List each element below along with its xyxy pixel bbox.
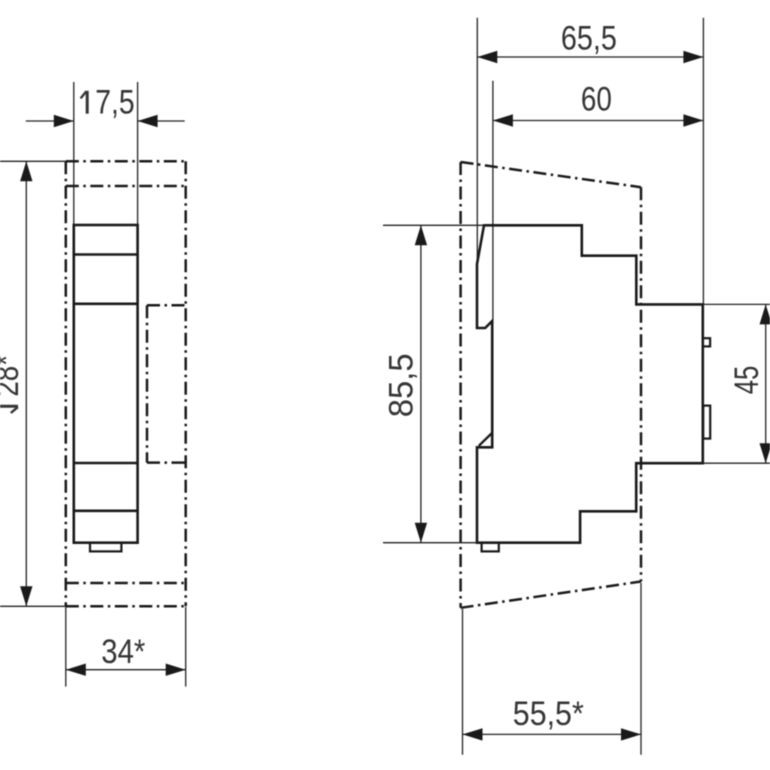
- arrowhead 55,5* left (points left): [463, 728, 483, 740]
- dimension line 17,5 right tail: [138, 120, 185, 122]
- extension line bottom of 85,5: [383, 542, 477, 544]
- arrowhead 60 right (points right): [683, 114, 703, 126]
- svg-text:28*: 28*: [0, 355, 26, 397]
- arrowhead 128* bottom (points down): [20, 586, 32, 606]
- dimension line 65,5: [477, 56, 703, 58]
- rail clip bump lower: [703, 406, 710, 439]
- phantom panel right vertical: [640, 187, 643, 581]
- digit 1 stem of 17,5: [86, 91, 89, 114]
- phantom outline left vertical: [65, 161, 68, 606]
- svg-text:60: 60: [581, 80, 612, 118]
- arrowhead 65,5 right (points right): [683, 51, 703, 63]
- extension line left of 65,5: [476, 18, 478, 264]
- extension line top of 45: [703, 303, 770, 305]
- extension line top of 85,5: [383, 224, 484, 226]
- digit 1 flag of 128* (rotated): [11, 407, 18, 413]
- svg-text:55,5*: 55,5*: [513, 695, 584, 733]
- arrowhead 17,5 right (points left): [138, 115, 158, 127]
- dimension line 60: [493, 120, 704, 122]
- bottom tab (front view): [90, 543, 121, 552]
- digit 1 stem of 128* (rotated): [0, 405, 18, 408]
- phantom panel bottom slant: [461, 582, 641, 608]
- extension line left of 34*: [65, 607, 67, 687]
- extension line bottom of 128*: [0, 605, 66, 607]
- svg-text:65,5: 65,5: [561, 19, 617, 57]
- arrowhead 85,5 top (points up): [415, 225, 427, 245]
- arrowhead 85,5 bottom (points down): [415, 523, 427, 543]
- divider line 4: [74, 509, 138, 512]
- dimension text 128* (rotated): [0, 355, 26, 413]
- svg-text:45: 45: [728, 366, 766, 395]
- extension line right of 65,5 / 60: [702, 18, 704, 305]
- digit 1 flag of 17,5: [81, 91, 87, 98]
- arrowhead 55,5* right (points right): [621, 728, 641, 740]
- dimension text 17,5: [81, 84, 135, 122]
- phantom panel top slant: [461, 162, 641, 187]
- phantom panel left vertical: [459, 162, 462, 608]
- rail hook bump upper: [703, 338, 710, 346]
- phantom outline right vertical: [184, 161, 187, 606]
- arrowhead 65,5 left (points left): [477, 51, 497, 63]
- arrowhead 17,5 left (points right): [54, 115, 74, 127]
- arrowhead 45 bottom (points down): [760, 443, 770, 463]
- phantom notch bottom: [147, 461, 186, 464]
- arrowhead 128* top (points up): [20, 161, 32, 181]
- dimension line 34*: [66, 669, 186, 671]
- extension line left of 55,5*: [462, 609, 464, 755]
- extension line right of 17,5: [137, 82, 139, 225]
- arrowhead 60 left (points left): [493, 114, 513, 126]
- phantom bottom edge near: [66, 605, 186, 608]
- extension line left of 17,5: [73, 82, 75, 225]
- extension line right of 34*: [185, 607, 187, 687]
- phantom top edge far: [66, 185, 186, 188]
- dimension line 17,5 left tail: [26, 120, 74, 122]
- svg-text:7,5: 7,5: [95, 84, 134, 122]
- extension line top of 128*: [0, 160, 66, 162]
- dimension line 55,5*: [463, 733, 642, 735]
- phantom bottom edge far: [66, 582, 186, 585]
- extension line bottom of 45: [703, 462, 770, 464]
- bottom tab (side view): [482, 543, 499, 552]
- divider line 3: [74, 462, 138, 465]
- phantom top edge near: [66, 160, 186, 163]
- device body outline (front view): [74, 225, 138, 543]
- dimension line 45: [765, 304, 767, 463]
- extension line left of 60: [492, 81, 494, 321]
- divider line 2: [74, 302, 138, 305]
- svg-text:85,5: 85,5: [383, 353, 421, 417]
- arrowhead 45 top (points up): [760, 304, 770, 324]
- arrowhead 34* left (points left): [66, 664, 86, 676]
- dimension line 128*: [25, 161, 27, 606]
- dimension line 85,5: [420, 225, 422, 542]
- extension line right of 55,5*: [640, 583, 642, 755]
- phantom notch top: [147, 304, 186, 307]
- svg-text:34*: 34*: [101, 633, 145, 671]
- device profile outline (side view): [477, 225, 703, 542]
- divider line 1: [74, 253, 138, 256]
- arrowhead 34* right (points right): [166, 664, 186, 676]
- phantom notch vertical: [146, 305, 149, 462]
- clip lever diagonal: [479, 434, 492, 446]
